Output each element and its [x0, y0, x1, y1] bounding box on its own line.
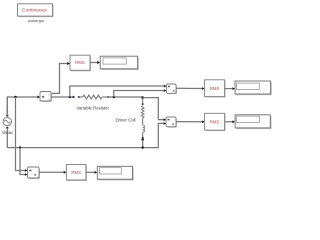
wire CM out to resistor — [51, 96, 75, 99]
wire coil top to V2 plus — [143, 98, 166, 122]
RMS block RMS3 — [66, 165, 87, 182]
voltage measurement V2 (across coil) — [166, 117, 177, 128]
wire v1 plus tap — [70, 85, 167, 97]
wire V0 minus from return junction — [20, 148, 28, 176]
Variac label — [2, 130, 14, 135]
display Display4 — [235, 115, 271, 129]
node coil bottom — [141, 138, 144, 141]
Driver Coil label — [115, 117, 135, 122]
node junction x=20 bottom — [19, 146, 21, 148]
display Display3 — [97, 166, 133, 180]
wire V1 out to RMS2 — [176, 87, 205, 90]
wire resistor to coil node — [107, 96, 142, 98]
node junction coil bottom return — [142, 146, 144, 148]
wire coil bottom to return — [142, 140, 144, 148]
svg-text:Continuous: Continuous — [22, 7, 47, 13]
voltage measurement V0 (across source) — [28, 167, 41, 179]
svg-text:Variable Resistor: Variable Resistor — [76, 106, 109, 111]
powergui label — [28, 18, 44, 23]
node junction on top wire x=15.5 — [14, 96, 16, 98]
node junction x=69.8 — [69, 96, 71, 98]
svg-text:RMS: RMS — [210, 119, 220, 124]
wire v1 minus tap — [114, 89, 167, 97]
wire RMS1 to Display1 — [90, 61, 100, 64]
svg-text:Driver Coil: Driver Coil — [115, 117, 135, 122]
current measurement block CM — [40, 92, 52, 103]
wire return up to V2 minus — [158, 122, 166, 148]
wire CM signal to RMS1 — [51, 62, 70, 94]
svg-text:RMS: RMS — [75, 60, 85, 65]
RMS block RMS4 — [205, 113, 226, 131]
node coil top — [141, 96, 144, 99]
wire V0 plus from top wire junction — [16, 97, 28, 172]
wire V2 out to RMS4 — [176, 120, 205, 123]
svg-text:Variac: Variac — [2, 130, 14, 135]
display Display1 — [100, 56, 139, 70]
node junction x=113.8 — [113, 96, 115, 98]
svg-text:RMS: RMS — [210, 86, 220, 91]
wire RMS3 to Display3 — [86, 171, 97, 174]
RMS block RMS1 (current) — [70, 55, 91, 71]
wire bottom return — [7, 147, 158, 149]
voltage measurement V1 (across resistor) — [167, 84, 178, 94]
Variable Resistor label — [76, 106, 109, 111]
powergui block — [18, 4, 54, 17]
svg-text:RMS: RMS — [71, 170, 81, 175]
wire source + to current measurement — [7, 96, 40, 115]
variable resistor R1 — [78, 95, 109, 99]
wire RMS2 to Display2 — [225, 87, 235, 90]
AC voltage source Variac — [3, 97, 11, 148]
wire RMS4 to Display4 — [225, 120, 236, 123]
wire V0 out to RMS3 — [39, 171, 66, 174]
driver coil branch L1 — [141, 98, 144, 140]
display Display2 — [235, 81, 272, 95]
RMS block RMS2 — [205, 80, 226, 98]
svg-text:powergui: powergui — [28, 18, 44, 23]
